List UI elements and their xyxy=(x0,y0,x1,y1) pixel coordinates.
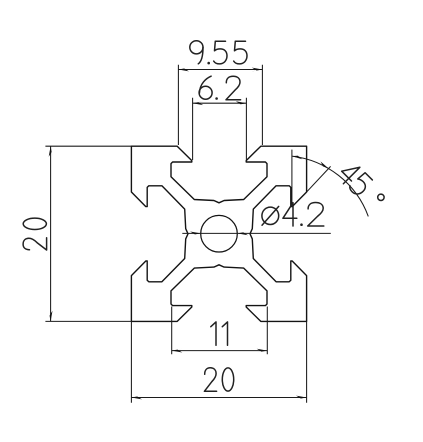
dim 11 extension lines xyxy=(172,307,268,355)
dim leader line through hole xyxy=(182,232,330,234)
dim text 20 bottom xyxy=(204,368,233,392)
dim text 20 left (rotated) xyxy=(23,218,47,250)
dim 20 left extension lines xyxy=(45,146,131,321)
dim 45 deg chamfer extension line xyxy=(304,166,331,195)
dim 11 line xyxy=(172,350,268,352)
dim 45 deg vertical reference line xyxy=(291,150,293,207)
dim 20 bottom line xyxy=(131,397,306,399)
dim text dia 4.2 xyxy=(262,203,324,227)
dim text 6.2 xyxy=(199,76,241,100)
dim text 9.55 xyxy=(190,41,247,65)
dim 6.2 line xyxy=(193,102,247,104)
dim 20 bottom extension lines xyxy=(131,321,306,402)
center hole circle xyxy=(201,215,238,252)
dim 9.55 extension lines xyxy=(178,65,262,145)
dim 6.2 extension lines xyxy=(193,98,247,160)
dim text 11 xyxy=(211,322,228,345)
dim 45 deg arc xyxy=(292,156,368,216)
dim 9.55 line xyxy=(178,69,262,71)
dim 20 left line xyxy=(50,146,52,321)
extrusion profile outline xyxy=(131,146,306,321)
dim text 45 deg (rotated) xyxy=(336,160,387,211)
